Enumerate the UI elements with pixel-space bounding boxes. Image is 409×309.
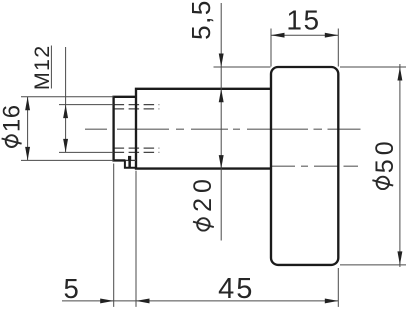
wire: phi50 dimension line	[399, 64, 401, 267]
node: phi50 eccentric disc outline	[271, 67, 338, 265]
wire: M12 text underline	[50, 46, 52, 89]
node: threaded hole M12 hidden lines (dashed)	[114, 105, 160, 153]
svg-text:M12: M12	[30, 44, 54, 90]
wire: disc centerline (eccentric axis dash-dot)	[272, 165, 358, 167]
wire: M12 dimension line	[65, 47, 67, 152]
node: label phi50	[371, 137, 399, 189]
svg-text:20: 20	[189, 174, 217, 212]
wire: 5,5 extension line (disc top projected left)	[214, 66, 271, 68]
svg-text:5: 5	[64, 273, 79, 304]
node: label phi20	[189, 174, 217, 231]
svg-text:50: 50	[371, 137, 399, 173]
node: shoulder undercut notch	[125, 160, 136, 167]
node: notch pin mark	[128, 156, 131, 161]
node: phi16 stub outline (left threaded boss)	[114, 97, 136, 161]
wire: phi50 dimension extension lines	[340, 67, 406, 265]
wire: M12 dimension extension lines	[59, 105, 114, 153]
svg-text:45: 45	[218, 273, 254, 305]
svg-text:16: 16	[0, 104, 26, 132]
wire: bottom dimension extension lines	[114, 164, 339, 307]
wire: shaft centerline (horizontal dash-dot through part)	[85, 128, 361, 130]
wire: 5,5 and phi20 shared dimension line	[220, 3, 222, 241]
wire: phi16 dimension extension lines	[21, 97, 114, 161]
wire: thin line across notch top	[125, 159, 136, 161]
svg-text:5,5: 5,5	[186, 0, 216, 40]
wire: bottom dimension line for 5 and 45	[62, 300, 338, 302]
wire: 15 dimension extension lines	[271, 29, 338, 67]
node: label phi16	[0, 104, 26, 147]
svg-text:15: 15	[286, 5, 320, 36]
node: phi20 cylinder outline	[136, 89, 271, 169]
wire: phi16 dimension line	[27, 97, 29, 161]
wire: 15 dimension line	[271, 34, 338, 36]
